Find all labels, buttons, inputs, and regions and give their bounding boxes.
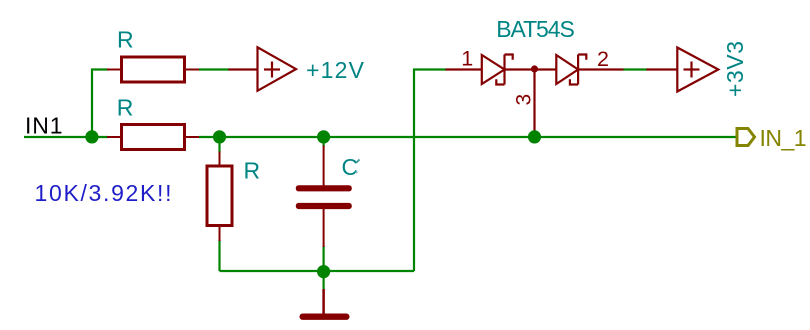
wire <box>623 68 648 70</box>
junction <box>528 130 541 143</box>
hierarchical label IN_1 <box>737 125 807 151</box>
resistor R3 <box>207 152 260 242</box>
diode D2 (BAT54S half B) <box>505 55 624 85</box>
svg-text:R: R <box>117 27 134 53</box>
svg-text:R: R <box>117 94 134 120</box>
svg-text:BAT54S: BAT54S <box>496 16 575 42</box>
wire <box>24 136 108 138</box>
svg-text:IN_1: IN_1 <box>760 125 807 151</box>
resistor R1 <box>107 27 199 82</box>
wire <box>218 241 220 272</box>
svg-text:R: R <box>244 158 261 184</box>
wire <box>323 246 325 271</box>
junction <box>85 130 98 143</box>
wire <box>199 68 230 70</box>
wire <box>218 137 220 153</box>
wire <box>199 136 737 138</box>
power symbol +3V3 <box>647 48 719 92</box>
ground <box>303 289 347 317</box>
power symbol +12V <box>229 47 297 91</box>
junction <box>213 130 226 143</box>
svg-text:+3V3: +3V3 <box>722 41 748 97</box>
junction <box>317 130 330 143</box>
svg-text:IN1: IN1 <box>25 113 63 139</box>
svg-text:2: 2 <box>597 47 609 71</box>
wire <box>414 70 447 272</box>
wire IN1 row B left segment <box>24 70 737 290</box>
junction <box>317 265 330 278</box>
svg-text:3: 3 <box>513 94 536 106</box>
resistor R2 <box>107 94 199 149</box>
wire <box>323 137 325 147</box>
svg-text:10K/3.92K!!: 10K/3.92K!! <box>35 180 172 206</box>
node BAT54S common <box>531 65 538 72</box>
diode D1 (BAT54S half A) <box>446 55 513 85</box>
wire <box>92 70 108 138</box>
wire <box>323 271 325 289</box>
wire <box>220 270 415 272</box>
svg-text:1: 1 <box>461 47 473 71</box>
wire pin 3 <box>533 69 535 134</box>
capacitor C1 <box>296 146 360 248</box>
svg-text:C: C <box>342 154 359 180</box>
svg-text:+12V: +12V <box>306 57 365 83</box>
